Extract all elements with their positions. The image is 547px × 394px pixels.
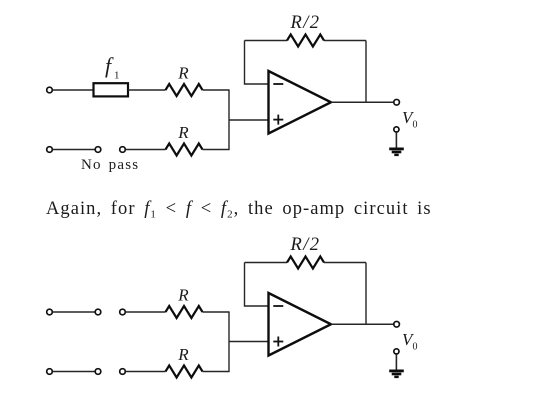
terminal (open switch left, top branch, bottom circuit) <box>95 309 101 315</box>
wire R4 to junction <box>203 371 230 373</box>
svg-text:R/2: R/2 <box>290 235 321 255</box>
wire R3 to junction <box>203 311 230 313</box>
op-amp U1 <box>269 71 332 134</box>
terminal (input node, top branch) <box>47 87 53 93</box>
terminal (input node, bottom branch left, bottom circuit) <box>47 369 53 375</box>
terminal (open switch left) <box>95 147 101 153</box>
label R (R2) <box>177 123 189 142</box>
terminal (open switch right, bottom branch, bottom circuit) <box>120 369 126 375</box>
ground (top circuit) <box>389 149 404 155</box>
svg-text:f: f <box>105 53 114 78</box>
svg-text:0: 0 <box>413 119 418 130</box>
wire to ground (top) <box>395 133 397 148</box>
label V0 (bottom) <box>402 330 418 353</box>
wire R1 to junction <box>203 89 230 91</box>
svg-text:R: R <box>177 285 189 304</box>
terminal (open switch right) <box>120 147 126 153</box>
wire between terminals (bottom branch, bottom circuit) <box>53 371 95 373</box>
wire feedback top right segment <box>324 40 366 42</box>
wire feedback right vertical <box>365 41 367 103</box>
wire feedback top right segment (bottom circuit) <box>324 262 366 264</box>
ground terminal circle (bottom circuit) <box>394 349 399 354</box>
caption text <box>46 199 432 221</box>
node V0 (output terminal, bottom circuit) <box>394 321 400 327</box>
label f1 <box>105 53 120 82</box>
wire to ground (bottom) <box>395 355 397 370</box>
wire box to resistor R1 <box>128 89 166 91</box>
resistor R2 (bottom branch) <box>166 144 203 156</box>
wire junction to op-amp + input (bottom circuit) <box>229 341 269 343</box>
op-amp U2 minus pin <box>273 305 283 307</box>
label R (R1) <box>177 63 189 82</box>
label R (R4) <box>177 345 189 364</box>
resistor R/2 (feedback, bottom circuit) <box>287 257 324 269</box>
resistor R3 (top branch, bottom circuit) <box>166 306 203 318</box>
wire feedback right vertical (bottom circuit) <box>365 263 367 325</box>
resistor R4 (bottom branch, bottom circuit) <box>166 366 203 378</box>
op-amp U1 plus pin <box>273 115 283 125</box>
terminal (open switch left, bottom branch, bottom circuit) <box>95 369 101 375</box>
ground (bottom circuit) <box>389 371 404 377</box>
svg-text:0: 0 <box>413 341 418 352</box>
wire junction to op-amp + input <box>229 119 269 121</box>
terminal (input node, top branch left, bottom circuit) <box>47 309 53 315</box>
label V0 (top) <box>402 108 418 131</box>
wire junction vertical <box>228 90 230 150</box>
wire op-amp output <box>331 101 394 103</box>
ground terminal circle (top circuit) <box>394 127 399 132</box>
wire between terminals (top branch, bottom circuit) <box>53 311 95 313</box>
wire feedback left vertical (bottom circuit) <box>245 263 269 307</box>
wire terminal to resistor R3 <box>126 311 166 313</box>
svg-text:1: 1 <box>114 70 120 82</box>
wire feedback top left segment <box>245 40 288 42</box>
svg-text:R: R <box>177 63 189 82</box>
op-amp U1 minus pin <box>273 83 283 85</box>
resistor R/2 (feedback, top circuit) <box>287 35 324 47</box>
wire junction vertical (bottom circuit) <box>228 312 230 372</box>
svg-text:No pass: No pass <box>81 157 139 173</box>
resistor R1 (top branch) <box>166 84 203 96</box>
wire R2 to junction <box>203 149 230 151</box>
wire terminal to filter box <box>53 89 93 91</box>
label R (R3) <box>177 285 189 304</box>
label R/2 (top) <box>290 13 321 33</box>
svg-text:R/2: R/2 <box>290 13 321 33</box>
filter f1 (box) <box>94 83 129 96</box>
svg-text:R: R <box>177 345 189 364</box>
op-amp U2 plus pin <box>273 337 283 347</box>
svg-text:R: R <box>177 123 189 142</box>
wire feedback left vertical <box>245 41 269 85</box>
wire terminal to resistor R2 <box>126 149 166 151</box>
wire feedback top left segment (bottom circuit) <box>245 262 288 264</box>
op-amp U2 <box>269 293 332 356</box>
label No pass <box>81 157 139 173</box>
terminal (input node, bottom branch left) <box>47 147 53 153</box>
label R/2 (bottom) <box>290 235 321 255</box>
svg-text:Again, for f1 < f < f2, the op: Again, for f1 < f < f2, the op-amp circu… <box>46 199 432 221</box>
wire op-amp output (bottom circuit) <box>331 323 394 325</box>
terminal (open switch right, top branch, bottom circuit) <box>120 309 126 315</box>
wire terminal to resistor R4 <box>126 371 166 373</box>
node V0 (output terminal, top circuit) <box>394 99 400 105</box>
wire between open terminals <box>53 149 95 151</box>
